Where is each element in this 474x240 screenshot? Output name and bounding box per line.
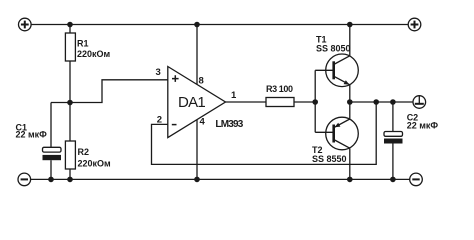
node bottom rail / T2 collector: [347, 177, 353, 183]
wire T2 collector: [349, 148, 351, 179]
svg-text:LM393: LM393: [215, 119, 243, 130]
node bottom rail / R2: [67, 177, 73, 183]
wire T2 base: [315, 131, 334, 133]
svg-text:220кОм: 220кОм: [77, 49, 111, 59]
svg-text:22 мкФ: 22 мкФ: [407, 121, 439, 131]
resistor R3: [266, 84, 294, 106]
svg-text:8: 8: [199, 76, 204, 87]
node bottom rail / pin4: [194, 177, 200, 183]
terminal minus bottom-left: [18, 173, 31, 186]
wire junction to C1: [51, 102, 70, 104]
wire pin4 power: [196, 120, 198, 180]
resistor R1: [65, 33, 110, 61]
wire bottom rail: [30, 178, 410, 180]
node bottom rail / C1: [48, 177, 54, 183]
svg-text:SS 8550: SS 8550: [312, 154, 347, 164]
wire C1 bottom lead: [50, 160, 52, 179]
terminal plus top-left: [19, 18, 32, 31]
wire T1 base: [315, 69, 334, 71]
svg-text:DA1: DA1: [178, 94, 205, 111]
op-amp DA1: [168, 67, 244, 138]
wire C2 bottom lead: [392, 144, 394, 180]
terminal plus top-right: [408, 18, 421, 31]
node feedback junction: [373, 99, 379, 105]
transistor T1: [316, 35, 358, 87]
svg-text:R3 100: R3 100: [266, 84, 293, 94]
wire R1 bottom to R2 top: [69, 61, 71, 141]
svg-text:R1: R1: [77, 39, 89, 49]
node C2 junction: [390, 99, 396, 105]
svg-text:R2: R2: [78, 147, 90, 157]
terminal earth right: [413, 96, 426, 109]
svg-text:22 мкФ: 22 мкФ: [16, 130, 48, 140]
wire output node: [350, 101, 413, 103]
terminal minus bottom-right: [410, 173, 423, 186]
wire pin1 output: [226, 101, 267, 103]
transistor T2: [312, 117, 358, 164]
wire C1 top lead: [50, 103, 52, 148]
wire R1 top lead: [69, 25, 71, 34]
node top rail / pin8: [194, 22, 200, 28]
resistor R2: [65, 141, 111, 169]
svg-text:1: 1: [231, 90, 237, 101]
capacitor C1: [16, 122, 62, 160]
node top rail / T1 collector: [347, 22, 353, 28]
wire T1 emitter: [349, 85, 351, 102]
wire base link vertical: [314, 70, 316, 132]
node emitter junction: [347, 99, 353, 105]
svg-text:4: 4: [200, 117, 206, 128]
node top rail / R1: [67, 22, 73, 28]
wire top rail: [31, 24, 409, 26]
node bottom rail / C2: [390, 177, 396, 183]
node R3 base link: [312, 99, 318, 105]
wire pin2 feedback: [152, 102, 377, 164]
svg-text:SS 8050: SS 8050: [316, 43, 351, 53]
wire R2 bottom lead: [69, 169, 71, 179]
wire T1 collector: [349, 25, 351, 56]
wire R3 to base link: [294, 101, 315, 103]
wire pin8 power: [196, 25, 198, 85]
wire T2 emitter: [349, 102, 351, 119]
wire junction to op-amp pin3: [70, 80, 168, 103]
node divider junction: [67, 100, 73, 106]
svg-text:3: 3: [156, 67, 161, 78]
wire C2 top lead: [392, 102, 394, 132]
svg-text:220кОм: 220кОм: [78, 159, 112, 169]
capacitor C2: [384, 113, 438, 144]
